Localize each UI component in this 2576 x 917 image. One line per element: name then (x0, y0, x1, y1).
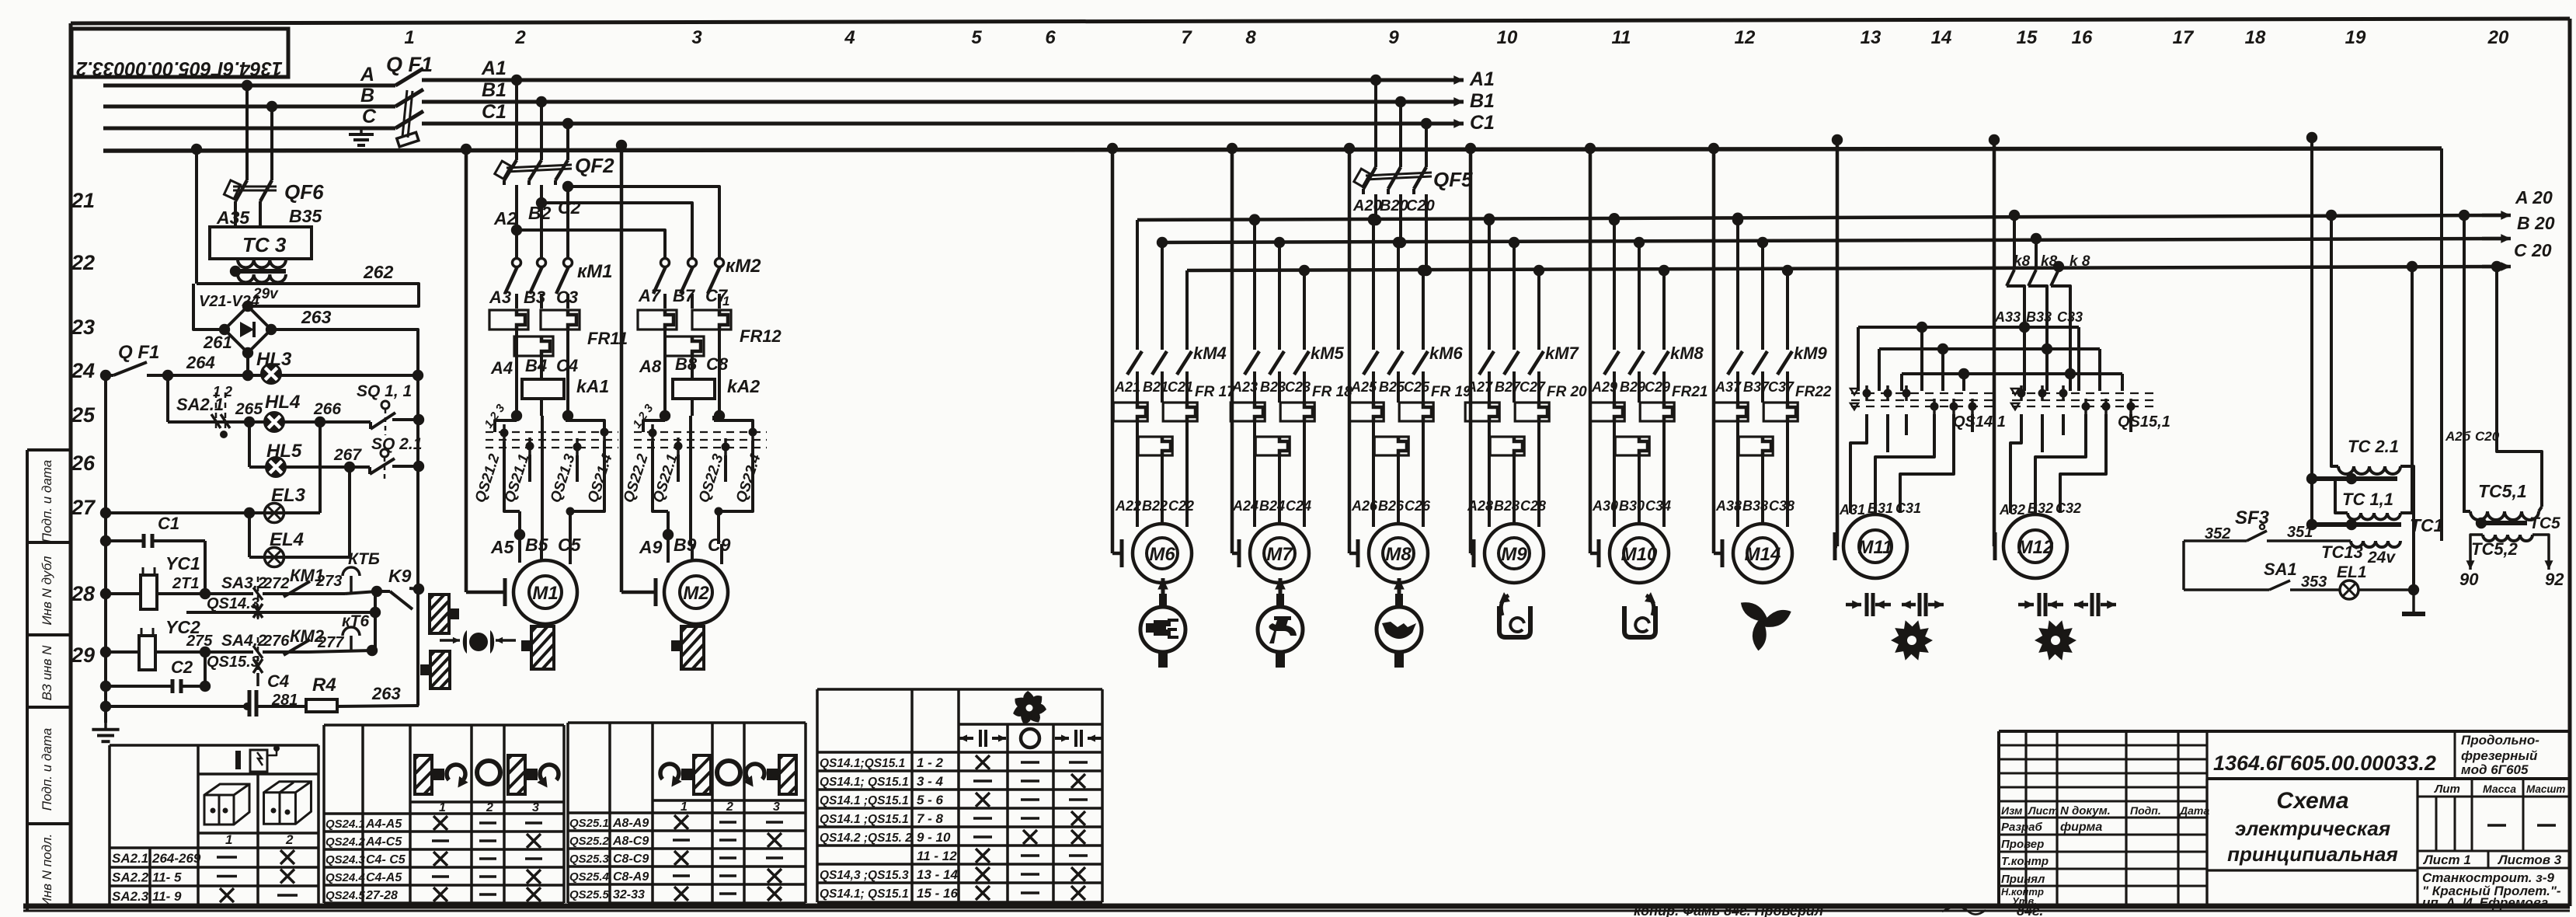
distribution bus A20 (1137, 215, 2508, 220)
svg-text:фирма: фирма (2060, 821, 2102, 834)
tap from bus A to QF6 (242, 80, 252, 91)
svg-text:B1: B1 (1470, 90, 1495, 112)
svg-text:FR22: FR22 (1795, 384, 1832, 400)
svg-text:kМ7: kМ7 (1545, 343, 1580, 363)
svg-text:FR12: FR12 (740, 326, 782, 346)
row 29: KM2 coil circuit (100, 647, 111, 657)
svg-text:электрическая: электрическая (2235, 817, 2390, 840)
svg-text:263: 263 (301, 307, 332, 327)
svg-text:A20: A20 (1352, 197, 1382, 214)
svg-text:276: 276 (263, 633, 290, 650)
svg-text:A24: A24 (1232, 498, 1258, 514)
svg-text:Провер: Провер (2001, 838, 2044, 851)
svg-text:мод 6Г605: мод 6Г605 (2461, 762, 2529, 777)
svg-text:19: 19 (2345, 27, 2366, 48)
svg-text:Листов 3: Листов 3 (2497, 852, 2562, 867)
left control rail (104, 375, 107, 723)
svg-text:QS14.1 ;QS15.1: QS14.1 ;QS15.1 (820, 794, 909, 807)
svg-text:267: 267 (333, 446, 362, 464)
svg-text:kМ5: kМ5 (1311, 343, 1345, 363)
svg-text:B25: B25 (1379, 379, 1405, 395)
svg-text:13 - 14: 13 - 14 (917, 867, 958, 882)
svg-text:15 - 16: 15 - 16 (917, 886, 958, 901)
svg-text:FR21: FR21 (1672, 384, 1707, 400)
svg-text:QS24.1: QS24.1 (325, 818, 365, 831)
svg-text:QF2: QF2 (575, 154, 614, 177)
svg-text:QF5: QF5 (1433, 168, 1473, 191)
motor M2 (616, 140, 627, 151)
svg-text:18: 18 (2245, 27, 2266, 48)
svg-text:2Т1: 2Т1 (172, 575, 199, 592)
table QS14/QS15 (816, 689, 819, 902)
svg-text:21: 21 (71, 189, 95, 212)
svg-text:кМ1: кМ1 (577, 261, 613, 282)
svg-text:B27: B27 (1495, 379, 1521, 395)
transformer TC3 box (210, 227, 312, 259)
svg-text:C4: C4 (267, 671, 289, 691)
svg-text:A30: A30 (1592, 498, 1618, 514)
bus N (4th horizontal bus) (103, 148, 2442, 151)
svg-text:C28: C28 (1520, 498, 1546, 514)
svg-text:10: 10 (1497, 27, 1518, 48)
svg-text:М14: М14 (1745, 544, 1781, 565)
svg-text:24v: 24v (2367, 549, 2396, 567)
svg-text:B8: B8 (675, 354, 698, 374)
svg-text:SA3.2: SA3.2 (221, 574, 267, 592)
svg-text:272: 272 (263, 575, 289, 592)
svg-text:C1: C1 (1470, 112, 1495, 134)
clutch symbol below M1 left (469, 633, 488, 651)
svg-text:C9: C9 (708, 535, 731, 555)
svg-text:C27: C27 (1519, 379, 1546, 395)
svg-text:263: 263 (371, 684, 401, 703)
svg-text:C37: C37 (1768, 379, 1794, 395)
svg-text:A21: A21 (1114, 379, 1140, 395)
svg-text:М9: М9 (1501, 544, 1527, 565)
svg-text:C2: C2 (171, 657, 193, 677)
svg-text:B23: B23 (1260, 379, 1286, 395)
svg-text:копир. Фамь 84г. Провер: копир. Фамь 84г. Проверил (1634, 903, 1823, 917)
cube icon 1 (204, 784, 249, 825)
svg-text:B38: B38 (1742, 498, 1768, 514)
svg-text:1: 1 (722, 294, 729, 309)
svg-text:B22: B22 (1142, 498, 1168, 514)
svg-text:C24: C24 (1286, 498, 1311, 514)
svg-text:B1: B1 (482, 79, 506, 101)
ground below EL1 (2412, 590, 2415, 612)
brake below M2 (681, 626, 704, 669)
svg-text:11: 11 (1612, 27, 1631, 48)
svg-text:N докум.: N докум. (2060, 804, 2111, 818)
svg-text:A37: A37 (1714, 379, 1742, 395)
svg-text:EL1: EL1 (2337, 563, 2367, 581)
TC3 primary winding (238, 260, 286, 267)
bus B1 after QF1 (422, 100, 1460, 104)
table QS25 header icons (660, 764, 679, 779)
svg-text:14: 14 (1931, 27, 1952, 48)
svg-text:3 - 4: 3 - 4 (917, 774, 944, 789)
svg-text:C38: C38 (1769, 498, 1794, 514)
lit massa masshtab cells (2418, 796, 2570, 798)
svg-text:Т.контр: Т.контр (2001, 855, 2049, 868)
svg-text:25: 25 (71, 403, 96, 427)
svg-text:2: 2 (726, 800, 733, 814)
svg-text:Лист 1: Лист 1 (2422, 852, 2471, 867)
branch A2 to M2 (511, 225, 522, 235)
svg-text:М7: М7 (1266, 544, 1293, 565)
svg-text:C20: C20 (1406, 197, 1435, 214)
svg-text:Схема: Схема (2276, 788, 2348, 814)
svg-text:353: 353 (2301, 574, 2327, 591)
core bar TC1.1/TC2.1 (2314, 476, 2397, 481)
title Схема электрическая принципиальная (2205, 779, 2208, 906)
svg-text:26: 26 (71, 452, 96, 475)
svg-text:C4- C5: C4- C5 (366, 853, 406, 866)
svg-text:Разраб: Разраб (2001, 821, 2043, 834)
wire from rectifier bottom to row 24 (246, 353, 249, 375)
clutch icons below M11 (1867, 593, 1873, 616)
svg-text:3: 3 (773, 800, 780, 814)
svg-text:A38: A38 (1715, 498, 1742, 514)
title block frame (1997, 731, 2000, 906)
motor M1 (461, 144, 472, 155)
table QS25 (566, 723, 569, 903)
svg-text:A4-A5: A4-A5 (365, 818, 402, 831)
svg-text:ип. А. И. Ефремова: ип. А. И. Ефремова (2422, 895, 2548, 910)
switch block QS14.1 (1851, 392, 1995, 394)
svg-text:Подп.: Подп. (2130, 804, 2161, 817)
svg-text:ТС5,1: ТС5,1 (2478, 481, 2527, 501)
svg-text:7: 7 (1181, 27, 1192, 48)
svg-text:3: 3 (691, 27, 702, 48)
svg-text:SA2.2: SA2.2 (112, 870, 149, 885)
svg-text:B7: B7 (673, 286, 696, 305)
capacitor C2 (100, 681, 111, 692)
inverted stamp box with drawing number (71, 29, 288, 77)
svg-text:B26: B26 (1378, 498, 1405, 514)
capacitor C1 (100, 535, 111, 546)
switch SA1 (2182, 541, 2185, 590)
svg-text:QS25.2: QS25.2 (569, 835, 610, 848)
svg-text:11- 9: 11- 9 (152, 889, 182, 904)
svg-text:C32: C32 (2056, 500, 2081, 516)
svg-text:1: 1 (681, 800, 688, 814)
svg-text:1364.6Г605.00.00033.2: 1364.6Г605.00.00033.2 (2213, 751, 2436, 775)
svg-text:273: 273 (315, 573, 342, 590)
svg-text:264-269: 264-269 (151, 851, 201, 866)
svg-text:262: 262 (363, 262, 394, 282)
svg-text:7 - 8: 7 - 8 (917, 811, 944, 826)
svg-text:ТС5,2: ТС5,2 (2471, 539, 2519, 559)
svg-text:24: 24 (71, 359, 95, 382)
svg-text:М2: М2 (683, 583, 709, 604)
svg-text:QS24.4: QS24.4 (325, 871, 366, 884)
svg-text:C8-C9: C8-C9 (613, 852, 649, 866)
svg-text:32-33: 32-33 (613, 888, 645, 901)
svg-text:B30: B30 (1619, 498, 1645, 514)
TC3 core bar (232, 269, 286, 274)
branch C2 to M2 (562, 181, 573, 192)
svg-text:Инв N подл.: Инв N подл. (40, 834, 54, 908)
svg-text:C1: C1 (482, 101, 506, 123)
svg-text:HL4: HL4 (265, 392, 300, 413)
icon below М9 (1499, 606, 1530, 637)
svg-text:23: 23 (71, 316, 95, 339)
svg-text:B35: B35 (289, 206, 322, 226)
svg-text:А33: А33 (1994, 309, 2021, 325)
svg-text:М10: М10 (1621, 544, 1658, 565)
svg-text:A31: A31 (1839, 502, 1865, 518)
svg-text:A 20: A 20 (2515, 187, 2553, 207)
svg-text:ТС 1,1: ТС 1,1 (2342, 490, 2393, 509)
svg-text:B5: B5 (525, 535, 549, 555)
svg-text:QS14.1;QS15.1: QS14.1;QS15.1 (820, 757, 905, 770)
svg-text:5 - 6: 5 - 6 (917, 793, 944, 807)
svg-text:C4: C4 (556, 356, 578, 375)
svg-text:28: 28 (71, 582, 95, 605)
svg-text:17: 17 (2173, 27, 2195, 48)
svg-text:C 20: C 20 (2514, 240, 2552, 260)
svg-text:C8: C8 (706, 354, 729, 374)
svg-text:FR 19: FR 19 (1431, 384, 1471, 400)
motor М6 (1107, 143, 1118, 154)
document number cell (2207, 777, 2570, 780)
svg-text:kМ6: kМ6 (1429, 343, 1464, 363)
svg-text:QS25.3: QS25.3 (569, 852, 610, 866)
left stub to rectifier (193, 284, 225, 329)
svg-text:266: 266 (313, 400, 341, 418)
svg-text:A1: A1 (1469, 68, 1495, 90)
svg-text:kМ8: kМ8 (1670, 343, 1704, 363)
svg-text:9: 9 (1388, 27, 1399, 48)
svg-text:265: 265 (235, 400, 263, 418)
svg-text:QS14,1: QS14,1 (1953, 413, 2006, 431)
svg-text:Инв N дубл: Инв N дубл (40, 556, 54, 625)
svg-text:27: 27 (71, 496, 96, 519)
clutch symbols in table header (980, 730, 986, 747)
tap from bus B to QF6 (266, 101, 277, 112)
svg-text:SA1: SA1 (2264, 560, 2297, 579)
saw blade below M12 (2035, 620, 2076, 660)
svg-text:kА1: kА1 (576, 376, 609, 396)
transformer TC13 24v (2351, 541, 2400, 547)
svg-text:кМ2: кМ2 (726, 256, 761, 277)
svg-text:C25: C25 (1404, 379, 1430, 395)
svg-text:8: 8 (1245, 27, 1256, 48)
svg-text:A: A (360, 64, 374, 85)
svg-text:М6: М6 (1149, 544, 1175, 565)
svg-text:QS24.2: QS24.2 (325, 835, 366, 849)
svg-text:QS14.1; QS15.1: QS14.1; QS15.1 (820, 887, 909, 901)
svg-text:B20: B20 (1380, 197, 1408, 214)
svg-text:351: 351 (2287, 524, 2313, 541)
bus A (103, 84, 395, 88)
svg-text:C22: C22 (1168, 498, 1194, 514)
svg-text:kА2: kА2 (727, 376, 760, 396)
arrow ends A1 B1 C1 (1429, 78, 1464, 82)
bus B (103, 105, 395, 109)
table QS24 (322, 725, 325, 903)
svg-text:277: 277 (317, 634, 344, 651)
svg-text:A22: A22 (1115, 498, 1141, 514)
motor M11 (1832, 134, 1843, 145)
svg-text:SQ 1, 1: SQ 1, 1 (357, 382, 412, 400)
svg-text:ТС 3: ТС 3 (242, 233, 287, 256)
svg-text:kМ9: kМ9 (1794, 343, 1828, 363)
left attribute margin column (26, 450, 29, 911)
svg-text:84г.: 84г. (2017, 903, 2043, 917)
bus C (103, 127, 395, 131)
svg-text:A26: A26 (1351, 498, 1378, 514)
svg-text:QS25.4: QS25.4 (569, 870, 610, 884)
svg-text:ВЗ инв N: ВЗ инв N (40, 645, 54, 701)
svg-text:SA4.2: SA4.2 (221, 632, 267, 650)
tap bus N to TC group (2306, 132, 2317, 143)
tap A1 to QF2 (511, 75, 522, 85)
svg-text:261: 261 (203, 333, 232, 352)
svg-text:A7: A7 (638, 286, 662, 305)
transformer TC5.2 (2483, 535, 2532, 541)
svg-text:A8-A9: A8-A9 (612, 817, 649, 830)
svg-text:C23: C23 (1285, 379, 1311, 395)
svg-text:Масса: Масса (2483, 783, 2516, 795)
svg-text:B21: B21 (1143, 379, 1168, 395)
svg-text:k8: k8 (2041, 253, 2058, 270)
svg-text:М1: М1 (532, 583, 558, 604)
svg-text:QS14,3 ;QS15.3: QS14,3 ;QS15.3 (820, 869, 909, 882)
core bar TC1 (2314, 522, 2401, 527)
row 26: lamp HL5, wire 267, SQ2.1 (248, 422, 251, 467)
svg-text:QF6: QF6 (284, 180, 324, 204)
svg-text:C3: C3 (556, 288, 578, 307)
svg-text:A1: A1 (481, 58, 506, 79)
svg-text:SQ 2.1: SQ 2.1 (371, 435, 422, 453)
svg-text:фрезерный: фрезерный (2461, 748, 2538, 763)
svg-text:C29: C29 (1645, 379, 1670, 395)
svg-text:М12: М12 (2017, 537, 2054, 558)
svg-text:A23: A23 (1231, 379, 1258, 395)
table QS24 header icons (415, 755, 432, 794)
svg-text:QS25.5: QS25.5 (569, 888, 610, 901)
svg-text:Изм: Изм (2001, 804, 2023, 817)
svg-text:11 - 12: 11 - 12 (917, 849, 957, 863)
bus C1 after QF1 (422, 122, 1460, 126)
taps A1/B1/C1 down to QF5 (1370, 75, 1381, 85)
svg-text:16: 16 (2072, 27, 2093, 48)
svg-text:А2б: А2б (2445, 429, 2471, 444)
svg-text:FR 18: FR 18 (1312, 384, 1352, 400)
svg-text:Подп. и дата: Подп. и дата (40, 728, 54, 811)
icon below М10 (1624, 606, 1655, 637)
TC3 secondary winding (238, 274, 286, 282)
svg-text:2: 2 (285, 832, 294, 847)
svg-text:C4-A5: C4-A5 (366, 871, 402, 884)
svg-text:Лит: Лит (2434, 783, 2460, 796)
svg-text:B 20: B 20 (2517, 213, 2555, 233)
svg-text:Масшт: Масшт (2526, 783, 2565, 795)
table SA2 header symbols (235, 751, 241, 769)
svg-text:A5: A5 (490, 537, 515, 557)
svg-text:A9: A9 (639, 537, 663, 557)
motor M12 (1989, 134, 2000, 145)
svg-text:QS25.1: QS25.1 (569, 817, 609, 830)
svg-text:3: 3 (532, 801, 539, 814)
svg-text:B29: B29 (1620, 379, 1645, 395)
distribution bus B20 (1161, 239, 2508, 242)
svg-text:Дата: Дата (2179, 804, 2209, 817)
motor М8 (1344, 143, 1355, 154)
svg-text:принципиальная: принципиальная (2227, 842, 2398, 866)
svg-text:15: 15 (2017, 27, 2038, 48)
svg-text:Лист: Лист (2028, 804, 2058, 817)
svg-text:QS15,1: QS15,1 (2118, 413, 2170, 431)
svg-text:C26: C26 (1405, 498, 1431, 514)
svg-text:1 - 2: 1 - 2 (917, 755, 944, 770)
svg-text:27-28: 27-28 (365, 889, 398, 902)
svg-text:Продольно-: Продольно- (2461, 733, 2539, 748)
row 28: KM1 coil circuit (100, 588, 111, 599)
svg-text:QS14.1; QS15.1: QS14.1; QS15.1 (820, 776, 909, 789)
svg-text:B3: B3 (524, 288, 545, 307)
motor М9 (1465, 143, 1476, 154)
tap C1 to QF2 (562, 118, 573, 129)
ground at bottom of left rail (104, 723, 107, 730)
svg-text:B4: B4 (525, 356, 547, 375)
svg-text:Принял: Принял (2001, 873, 2045, 886)
svg-text:k8: k8 (2014, 253, 2031, 270)
svg-text:9 - 10: 9 - 10 (917, 830, 951, 845)
svg-text:ТС1: ТС1 (2410, 515, 2443, 535)
svg-text:A4-C5: A4-C5 (365, 835, 402, 849)
svg-text:A29: A29 (1591, 379, 1617, 395)
svg-text:A3: A3 (489, 288, 511, 307)
taps A20/C20 to TC1.1/TC2.1 (2326, 210, 2337, 221)
svg-text:k 8: k 8 (2070, 253, 2090, 270)
drawing frame (71, 19, 2570, 23)
svg-text:264: 264 (186, 353, 215, 372)
svg-text:5: 5 (971, 27, 982, 48)
svg-text:C34: C34 (1645, 498, 1671, 514)
svg-text:QS24.5: QS24.5 (325, 889, 366, 902)
branch М10: taps from distribution buses (1609, 214, 1620, 225)
svg-text:C1: C1 (158, 514, 179, 533)
svg-text:A8: A8 (639, 357, 662, 376)
branch B2 to M2 (536, 197, 547, 208)
svg-text:4: 4 (844, 27, 855, 48)
tap from bus N down to TC3/262 (191, 144, 202, 155)
fan icon in table header (1029, 703, 1046, 714)
brake hatched boxes next to control rail (430, 594, 449, 633)
svg-text:R4: R4 (312, 675, 336, 696)
svg-text:1: 1 (225, 832, 232, 847)
tap B1 to QF2 (536, 96, 547, 107)
svg-text:QS24.3: QS24.3 (325, 853, 366, 866)
svg-text:Подп. и дата: Подп. и дата (40, 460, 54, 542)
svg-text:QS15.3: QS15.3 (207, 654, 259, 671)
pole switch QS21.1-QS21.4 (495, 420, 517, 432)
row 27: lamp EL3 (100, 507, 111, 518)
svg-text:Q F1: Q F1 (118, 342, 159, 363)
svg-text:A32: A32 (1999, 502, 2025, 518)
svg-text:K9: K9 (388, 566, 412, 586)
motor М14 (1708, 143, 1719, 154)
icon below М7 (1279, 578, 1283, 594)
svg-text:13: 13 (1861, 27, 1882, 48)
branch М8: taps from distribution buses (1368, 214, 1379, 225)
brake below M1 (531, 626, 554, 669)
svg-text:ТС5: ТС5 (2529, 514, 2560, 532)
svg-text:A35: A35 (216, 207, 250, 228)
